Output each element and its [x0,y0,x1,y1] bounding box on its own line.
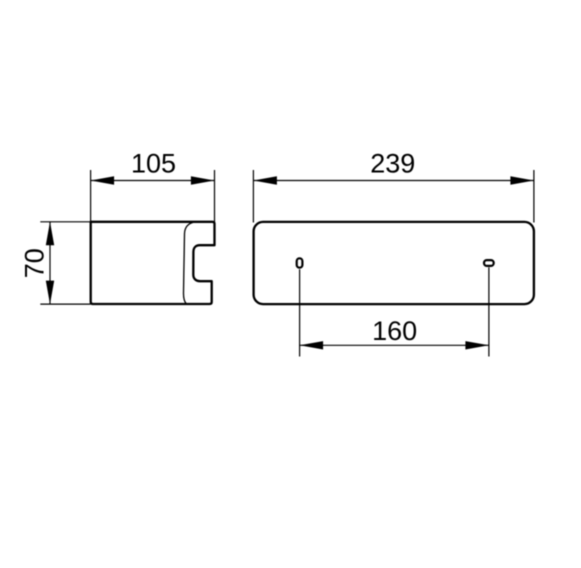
side view inner edge line [183,222,194,304]
dim 105 dimension line [91,180,215,182]
dim 239 arrow right [510,176,534,184]
svg-text:160: 160 [372,316,417,346]
dim 70 extension line bottom [40,303,90,305]
side view outline (left view of bracket) [91,222,215,304]
dim 239 arrow left [253,176,277,184]
dim 239 extension line right [533,170,535,223]
dim 239 extension line left [252,170,254,223]
svg-text:239: 239 [370,149,415,179]
dim 70 dimension line [49,222,51,304]
dim 160 arrow left [300,341,324,349]
svg-text:105: 105 [131,149,176,179]
right mounting slot (horizontal) [484,260,494,266]
dim 105 arrow right [191,176,215,184]
dim 239 dimension line [253,180,534,182]
dim 70 arrow top [46,222,54,246]
dim 160 extension line left [299,269,301,356]
dim 105 extension line left [90,170,92,222]
dim 105 extension line right [214,170,216,222]
svg-text:70: 70 [19,248,49,278]
dim 160 arrow right [465,341,489,349]
left mounting slot (vertical) [297,258,303,267]
dim 70 arrow bottom [46,281,54,305]
dim 105 arrow left [91,176,115,184]
dim 160 dimension line [300,344,489,346]
dim 70 extension line top [40,221,90,223]
front view plate [254,222,534,304]
dim 160 extension line right [488,267,490,356]
